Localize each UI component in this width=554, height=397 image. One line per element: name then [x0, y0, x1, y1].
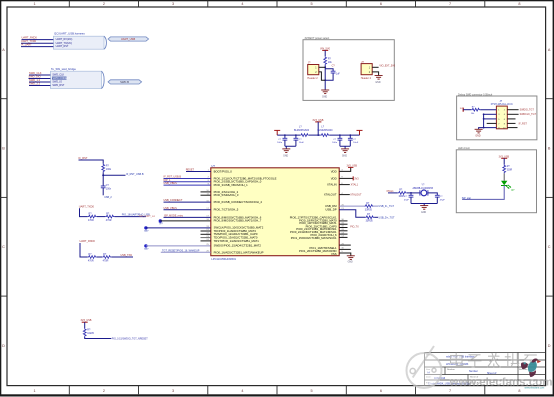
- wire cap branch: [325, 69, 333, 80]
- wire SWD_DIO: [29, 78, 51, 80]
- capacitor C crystal left: [404, 193, 414, 204]
- column numbers top: [34, 2, 521, 6]
- svg-text:330R: 330R: [507, 169, 513, 171]
- svg-text:SWD_RST: SWD_RST: [52, 84, 64, 87]
- svg-text:3V3/EXT power select: 3V3/EXT power select: [305, 37, 330, 40]
- capacitor C filter 3: [332, 135, 342, 146]
- power bar left filter: [274, 130, 280, 135]
- resistor R swdio pullup: [83, 328, 94, 337]
- svg-text:ISP_stat: ISP_stat: [462, 197, 471, 200]
- watermark small teal url: [525, 387, 545, 390]
- header J1: [307, 62, 318, 80]
- svg-text:10k05: 10k05: [87, 332, 94, 335]
- net label XTAL1: [351, 184, 359, 187]
- box power select title: [305, 37, 330, 40]
- svg-text:SWDCONNECT: SWDCONNECT: [52, 77, 70, 80]
- harness UART_USB signal UART_RX: [56, 38, 73, 41]
- power port 3V3 for reset pullup: [79, 156, 88, 160]
- stub SWD row4 left: [487, 122, 497, 124]
- wire VSS to ground: [339, 253, 351, 256]
- box SWD title: [458, 93, 493, 96]
- wire 5V stem: [324, 50, 326, 56]
- svg-text:XTAL1: XTAL1: [351, 184, 359, 187]
- resistor chain2 R1: [88, 253, 97, 263]
- IC U1 body: [211, 164, 339, 261]
- wire UART_TXD0: [21, 42, 53, 44]
- wire pin3: [164, 181, 211, 183]
- svg-text:1: 1: [34, 2, 36, 6]
- wire SWD row5 left: [479, 128, 497, 130]
- wire reset node to label: [103, 174, 125, 176]
- svg-text:GND: GND: [342, 155, 347, 157]
- power port 3V3 swdio pullup: [81, 319, 92, 322]
- wire pin1 BOOT: [186, 171, 211, 173]
- wire USB_DP: [339, 210, 365, 218]
- capacitor C filter 2: [294, 135, 305, 146]
- net label USB_D+: [378, 216, 395, 219]
- power port 3V3_USB filter center: [312, 119, 323, 122]
- wire pin7 USB_CONNECT: [164, 201, 211, 203]
- svg-text:SWD.B: SWD.B: [120, 80, 129, 84]
- junction select a: [324, 66, 326, 68]
- svg-text:3V3_USB: 3V3_USB: [347, 164, 358, 167]
- net label UART_TXD0: [21, 39, 37, 43]
- svg-text:470R: 470R: [88, 259, 94, 262]
- power bar SWD VTref: [460, 108, 465, 112]
- wire crystal mid: [407, 192, 420, 194]
- wire pullup bottom: [85, 337, 112, 339]
- wire SWD row2 left: [484, 113, 497, 115]
- wire SWD row2 right: [507, 113, 518, 115]
- test point TP1: [159, 219, 164, 226]
- wire TP2 to pin SWCLK: [146, 227, 211, 229]
- wire chain2 mid: [97, 256, 103, 258]
- wire VDD1 right: [339, 168, 351, 172]
- capacitor C crystal right: [435, 195, 445, 203]
- column ticks top: [69, 0, 485, 7]
- wire pullup stem: [84, 322, 86, 328]
- svg-text:UART_TXD0: UART_TXD0: [79, 204, 95, 208]
- wire SWD row3 left: [484, 118, 497, 120]
- junction SWD gnd c: [483, 127, 485, 129]
- svg-text:3: 3: [172, 2, 174, 6]
- svg-text:SWDCLK_TGT: SWDCLK_TGT: [520, 113, 537, 116]
- svg-text:SWD_CLK: SWD_CLK: [29, 71, 42, 75]
- wire pin4: [164, 184, 211, 186]
- pin11 stub TDI: [201, 230, 211, 232]
- XTALOUT stub: [339, 194, 350, 196]
- svg-text:XTALIN: XTALIN: [327, 183, 337, 187]
- title block lines: [425, 353, 546, 386]
- ground SWD: [475, 129, 483, 137]
- pin6 stub: [201, 194, 211, 196]
- wire reset mid: [102, 173, 104, 187]
- box LED title: [458, 147, 470, 150]
- wire SWD_CLK: [29, 74, 50, 76]
- wire J1 pin2: [319, 72, 325, 80]
- svg-text:D: D: [548, 344, 551, 348]
- svg-text:BLM18PG600: BLM18PG600: [294, 129, 310, 132]
- svg-text:TP?: TP?: [159, 224, 164, 226]
- watermark www.elecfans.com: [449, 377, 553, 389]
- svg-text:UART_RXD0: UART_RXD0: [22, 36, 38, 40]
- net label IF_RST_USB: [126, 173, 144, 176]
- IC left pin numbers: [206, 170, 209, 253]
- svg-text:IF_RST_USB.B: IF_RST_USB.B: [126, 173, 144, 176]
- ground filter right: [341, 149, 349, 158]
- test point TP2: [144, 226, 149, 233]
- box SWD border: [457, 96, 537, 140]
- net label XTALOUT: [350, 194, 362, 197]
- resistor chain1 R1: [88, 212, 97, 222]
- wire filter rail right: [329, 134, 359, 136]
- svg-text:10uF: 10uF: [299, 142, 305, 144]
- svg-text:100k: 100k: [106, 168, 112, 171]
- svg-text:6: 6: [380, 389, 382, 393]
- svg-text:C: C: [548, 245, 551, 249]
- wire filter gnd right: [340, 146, 350, 149]
- ground select: [321, 89, 329, 99]
- wire TP1 to pin10: [160, 220, 211, 222]
- power port VIN_5V0: [320, 47, 331, 50]
- svg-text:UART_RX(I2C): UART_RX(I2C): [56, 38, 73, 41]
- right stub pin 249: [339, 248, 351, 250]
- junction SWD gnd a: [483, 113, 485, 115]
- harness SWD_bridge title: [51, 67, 76, 71]
- wire chain1 right: [114, 216, 146, 218]
- power bar right filter: [357, 130, 363, 135]
- resistor R LED: [503, 164, 513, 173]
- svg-text:Debug SWD connector 0.05inch: Debug SWD connector 0.05inch: [458, 93, 493, 96]
- net label UART_RXD0: [22, 36, 38, 40]
- svg-text:UART_RST: UART_RST: [56, 45, 69, 48]
- svg-text:3V3: 3V3: [354, 178, 359, 181]
- svg-text:VDD: VDD: [331, 176, 337, 180]
- svg-text:TP?: TP?: [144, 249, 149, 251]
- capacitor C filter 1: [277, 135, 287, 146]
- header J2: [361, 61, 373, 80]
- svg-text:TGT_RESET/PIO0_16_WAKEUP: TGT_RESET/PIO0_16_WAKEUP: [162, 249, 200, 252]
- svg-text:B: B: [2, 147, 5, 151]
- svg-text:XTALOUT: XTALOUT: [350, 194, 362, 197]
- resistor R pullup reset: [102, 164, 112, 173]
- wire SWD row5 right: [507, 127, 517, 129]
- right stub pin 245: [339, 244, 351, 246]
- net label USB_VBUS pin8: [164, 207, 178, 210]
- wire VDD2 right: [339, 177, 353, 179]
- net label IF_RST_USB pin2: [164, 176, 182, 179]
- resistor R select: [324, 56, 333, 65]
- svg-text:U?: U?: [211, 164, 215, 168]
- ferrite bead L2: [317, 126, 333, 137]
- svg-text:USB_VBUS: USB_VBUS: [164, 207, 178, 210]
- svg-text:470R: 470R: [88, 219, 94, 222]
- svg-text:USB_DP: USB_DP: [325, 208, 336, 212]
- junction filter c: [317, 134, 319, 136]
- svg-text:TRST/PIO0_14/AD3/CT32B1_MAT1: TRST/PIO0_14/AD3/CT32B1_MAT1: [214, 239, 260, 243]
- sheet outer edge top: [0, 0, 554, 1]
- svg-text:3: 3: [172, 389, 174, 393]
- svg-text:RESET: RESET: [186, 168, 195, 171]
- svg-text:8: 8: [518, 2, 520, 6]
- svg-text:IF_UART: IF_UART: [21, 43, 32, 47]
- wire filter rail left: [277, 134, 300, 136]
- watermark bird logo: [521, 358, 541, 377]
- svg-text:2: 2: [103, 389, 105, 393]
- wire filter gnd left: [285, 146, 296, 149]
- junction filter d: [339, 134, 341, 136]
- junction filter b: [295, 134, 297, 136]
- net label USB_2: [104, 196, 112, 199]
- net label IF_TXD chain2: [121, 254, 133, 257]
- wire J2 pin2: [372, 72, 378, 76]
- watermark chinese characters: [451, 353, 538, 368]
- right stub group pins: [339, 221, 347, 238]
- svg-text:10uF: 10uF: [353, 142, 359, 144]
- harness UART_USB signal UART_RST: [56, 45, 69, 48]
- harness SWD_bridge signal SWD_CLK: [52, 74, 64, 77]
- svg-text:PIO1_15/DCD/CT16B0_MAT2/SCK1: PIO1_15/DCD/CT16B0_MAT2/SCK1: [291, 236, 337, 240]
- watermark circle logo: [407, 346, 442, 388]
- sheet outer edge bottom: [0, 394, 554, 396]
- svg-text:www.elecfans.com: www.elecfans.com: [525, 387, 545, 390]
- column numbers bottom: [34, 389, 521, 393]
- svg-text:470R: 470R: [103, 259, 109, 262]
- box power select border: [303, 40, 394, 101]
- net label TGT_RESET pin17: [162, 249, 200, 252]
- wire pin2 IF_RST: [164, 178, 211, 180]
- pin13 stub TDO: [201, 237, 211, 239]
- ground J2: [375, 76, 383, 84]
- svg-text:GND: GND: [475, 136, 480, 138]
- svg-text:VIO_EXT_5V0: VIO_EXT_5V0: [379, 65, 395, 68]
- net label TxD sw pin9: [139, 215, 156, 218]
- net label VIO_EXT: [379, 65, 395, 68]
- svg-text:PIO0_3/USB_VBUS/IOH_1: PIO0_3/USB_VBUS/IOH_1: [214, 183, 248, 187]
- wire SWD row1 left: [463, 109, 471, 111]
- IC right pin numbers: [341, 170, 344, 254]
- svg-text:ABM3B-16.000MHZ: ABM3B-16.000MHZ: [413, 187, 434, 190]
- svg-text:TxD_UART_sw: TxD_UART_sw: [139, 215, 156, 218]
- svg-text:GND: GND: [283, 155, 288, 157]
- svg-text:PIO0_16/AD5/CT32B1_MAT3/WAKEUP: PIO0_16/AD5/CT32B1_MAT3/WAKEUP: [214, 250, 264, 254]
- svg-text:47pF: 47pF: [404, 200, 410, 202]
- power port 3V3 VDD2 bar: [353, 176, 359, 180]
- harness connector port UART_USB: [108, 37, 149, 41]
- wire UART_RXD0: [22, 39, 54, 41]
- svg-text:C: C: [2, 245, 5, 249]
- pin5 stub: [201, 191, 211, 193]
- svg-text:UART_USB: UART_USB: [121, 37, 135, 41]
- wire pin8 USB_VBUS: [164, 209, 211, 211]
- crystal Y1: [413, 184, 434, 196]
- sheet outer edge left: [0, 0, 1, 396]
- net label SWD_1: [29, 78, 41, 82]
- pin12 stub TMS: [201, 233, 211, 235]
- harness SWD_bridge body: [50, 71, 104, 88]
- net label RESET pin1: [186, 168, 195, 171]
- svg-text:IF_RST: IF_RST: [79, 156, 88, 160]
- svg-text:5: 5: [311, 2, 313, 6]
- row letters left: [2, 48, 5, 348]
- net label PIO_16/UART chain1: [122, 214, 150, 217]
- junction filter e: [349, 134, 351, 136]
- wire SWD_2: [29, 85, 50, 87]
- wire USB_DM right: [373, 205, 378, 207]
- svg-text:100n: 100n: [277, 142, 283, 144]
- net label SWD_CLK: [29, 71, 42, 75]
- net label UART_TXD chain1: [79, 204, 95, 208]
- wire LED mid: [503, 173, 505, 180]
- wire reset top: [79, 160, 104, 164]
- svg-text:USB_CONNECT: USB_CONNECT: [164, 199, 183, 202]
- power port 3V3 VDD1: [347, 164, 358, 167]
- net label DM_L pin3: [164, 179, 172, 182]
- net label UR_DM pin4: [164, 182, 178, 185]
- junction SWD gnd b: [483, 118, 485, 120]
- svg-text:GND: GND: [348, 262, 353, 264]
- wire filter rail mid: [309, 134, 320, 136]
- svg-text:ISP_MODE_entry: ISP_MODE_entry: [164, 215, 184, 218]
- stub SWD row4 right: [507, 122, 515, 124]
- wire pin9: [164, 216, 211, 218]
- title block entries: [427, 356, 497, 386]
- harness UART_USB title: [54, 32, 85, 36]
- svg-text:BLM18PG600: BLM18PG600: [317, 129, 333, 132]
- svg-text:7: 7: [449, 2, 451, 6]
- net label UART_RXD chain2: [80, 239, 96, 243]
- harness SWD_bridge signal SWD_IO: [52, 81, 62, 84]
- harness UART_USB signal UART_TX: [56, 42, 73, 45]
- svg-text:USB_2: USB_2: [104, 196, 112, 199]
- svg-text:7: 7: [449, 389, 451, 393]
- svg-text:GND: GND: [375, 82, 380, 84]
- IC right pin labels: [290, 169, 338, 255]
- resistor R USB_DM: [364, 202, 373, 212]
- net label SWD_2: [29, 82, 41, 86]
- net label USB_CONNECT pin7: [164, 199, 183, 202]
- svg-text:SWD_DIO: SWD_DIO: [29, 75, 41, 79]
- svg-text:33R05: 33R05: [366, 220, 374, 223]
- svg-text:PIO0_9/MOSI0/CT16B0_MAT1/IOH_7: PIO0_9/MOSI0/CT16B0_MAT1/IOH_7: [214, 219, 262, 223]
- capacitor C select: [331, 64, 341, 75]
- svg-text:8: 8: [518, 389, 520, 393]
- svg-text:2: 2: [103, 2, 105, 6]
- svg-text:FTSH-105-01-L-DV-K: FTSH-105-01-L-DV-K: [491, 104, 514, 106]
- resistor R crystal: [398, 188, 407, 198]
- svg-text:USB_VBUS: USB_VBUS: [164, 182, 178, 185]
- net label IF_UART: [21, 43, 32, 47]
- ground VSS: [347, 256, 355, 264]
- net label PIO_TX right: [350, 225, 359, 228]
- wire J1 pin1: [319, 66, 325, 68]
- wire chain2 vertical: [80, 243, 88, 257]
- ferrite bead L1: [294, 126, 310, 137]
- svg-text:Header 2: Header 2: [307, 77, 318, 80]
- svg-text:USB_D-_TGT: USB_D-_TGT: [378, 205, 394, 208]
- svg-text:UART_TXD0: UART_TXD0: [21, 39, 37, 43]
- svg-text:VSS: VSS: [331, 252, 337, 256]
- svg-text:33R05: 33R05: [365, 209, 373, 212]
- wire TP3 to pin SWDIO: [146, 245, 211, 247]
- svg-text:D: D: [2, 344, 5, 348]
- sheet outer edge right: [553, 0, 554, 396]
- svg-text:Number: Number: [447, 368, 455, 371]
- harness UART_USB body: [53, 36, 106, 49]
- svg-text:PIO0_7/CTS/IOH_5: PIO0_7/CTS/IOH_5: [214, 208, 239, 212]
- header J3 pin numbers: [498, 110, 506, 130]
- svg-text:47pF: 47pF: [440, 200, 446, 202]
- svg-text:SWD_2.2: SWD_2.2: [29, 82, 41, 86]
- wire USB_DP right: [374, 216, 378, 218]
- wire SWD row1 right: [507, 109, 518, 111]
- svg-text:USB_TXD: USB_TXD: [121, 254, 133, 257]
- svg-text:PIO0_5/SDA/IOH_3: PIO0_5/SDA/IOH_3: [214, 193, 239, 197]
- svg-text:To_SW_swd_bridge: To_SW_swd_bridge: [51, 67, 76, 71]
- net label ISP_stat: [462, 197, 471, 200]
- column ticks bottom: [69, 386, 485, 395]
- svg-text:PIO_0.15/SWDIO_TGT_NRESET: PIO_0.15/SWDIO_TGT_NRESET: [112, 337, 149, 340]
- box LED border: [456, 150, 536, 213]
- ground filter left: [282, 149, 290, 158]
- svg-text:IF_RST: IF_RST: [519, 123, 528, 126]
- wire chain2 right: [111, 256, 133, 258]
- net label IF_RST swd: [519, 123, 528, 126]
- wire chain1 vertical: [80, 208, 88, 216]
- svg-text:100n: 100n: [332, 142, 338, 144]
- wire USB_DM: [339, 205, 364, 207]
- junction crystal left: [410, 192, 412, 194]
- resistor R SWD vtref: [471, 107, 481, 115]
- svg-text:Number: Number: [469, 370, 478, 373]
- wire J2 pin1: [372, 66, 378, 68]
- svg-text:VDD: VDD: [331, 169, 337, 173]
- wire SWD gnd vertical: [483, 114, 485, 127]
- resistor R USB_DP: [365, 213, 374, 223]
- svg-text:SWDIO_TGT: SWDIO_TGT: [520, 109, 535, 112]
- svg-text:XTALOUT: XTALOUT: [324, 193, 337, 197]
- harness connector port SWD.B: [108, 80, 142, 84]
- svg-text:4: 4: [241, 2, 243, 6]
- wire chain1 mid: [97, 216, 106, 218]
- svg-text:LED circuit: LED circuit: [458, 147, 470, 150]
- wire LED bottom: [462, 185, 504, 199]
- wire crystal gnd rail: [411, 204, 437, 206]
- svg-text:BOOT/PIO0_0: BOOT/PIO0_0: [214, 169, 233, 173]
- wire IF_UART: [21, 46, 53, 48]
- svg-text:1: 1: [34, 389, 36, 393]
- wire SWD row1 to pin1: [480, 109, 496, 111]
- harness SWD_bridge signal SWD_RST: [52, 84, 64, 87]
- svg-text:TP?: TP?: [144, 231, 149, 233]
- test point TP3: [144, 244, 149, 251]
- pin14 stub TRST: [201, 240, 211, 242]
- stub SWD row3 right: [507, 118, 515, 120]
- row ticks left: [0, 99, 7, 296]
- net label XTAL1 crystal: [386, 190, 394, 193]
- wire crystal right: [428, 193, 437, 195]
- wire reset bottom: [102, 188, 104, 196]
- svg-text:SWDIO/PIO0_15/AD4/CT32B1_MAT2: SWDIO/PIO0_15/AD4/CT32B1_MAT2: [214, 243, 262, 247]
- svg-text:4: 4: [241, 389, 243, 393]
- net label SWD_DIO: [29, 75, 41, 79]
- svg-text:LPC11U35FHI33/501: LPC11U35FHI33/501: [211, 257, 236, 261]
- svg-text:Sheet of: Sheet of: [487, 372, 497, 375]
- svg-text:1uF: 1uF: [336, 74, 341, 76]
- XTALIN stub: [339, 184, 350, 186]
- svg-text:PIO0_6/USB_CONNECT/SCK0/IOH_4: PIO0_6/USB_CONNECT/SCK0/IOH_4: [214, 200, 263, 204]
- svg-text:UART_RXD0: UART_RXD0: [80, 239, 96, 243]
